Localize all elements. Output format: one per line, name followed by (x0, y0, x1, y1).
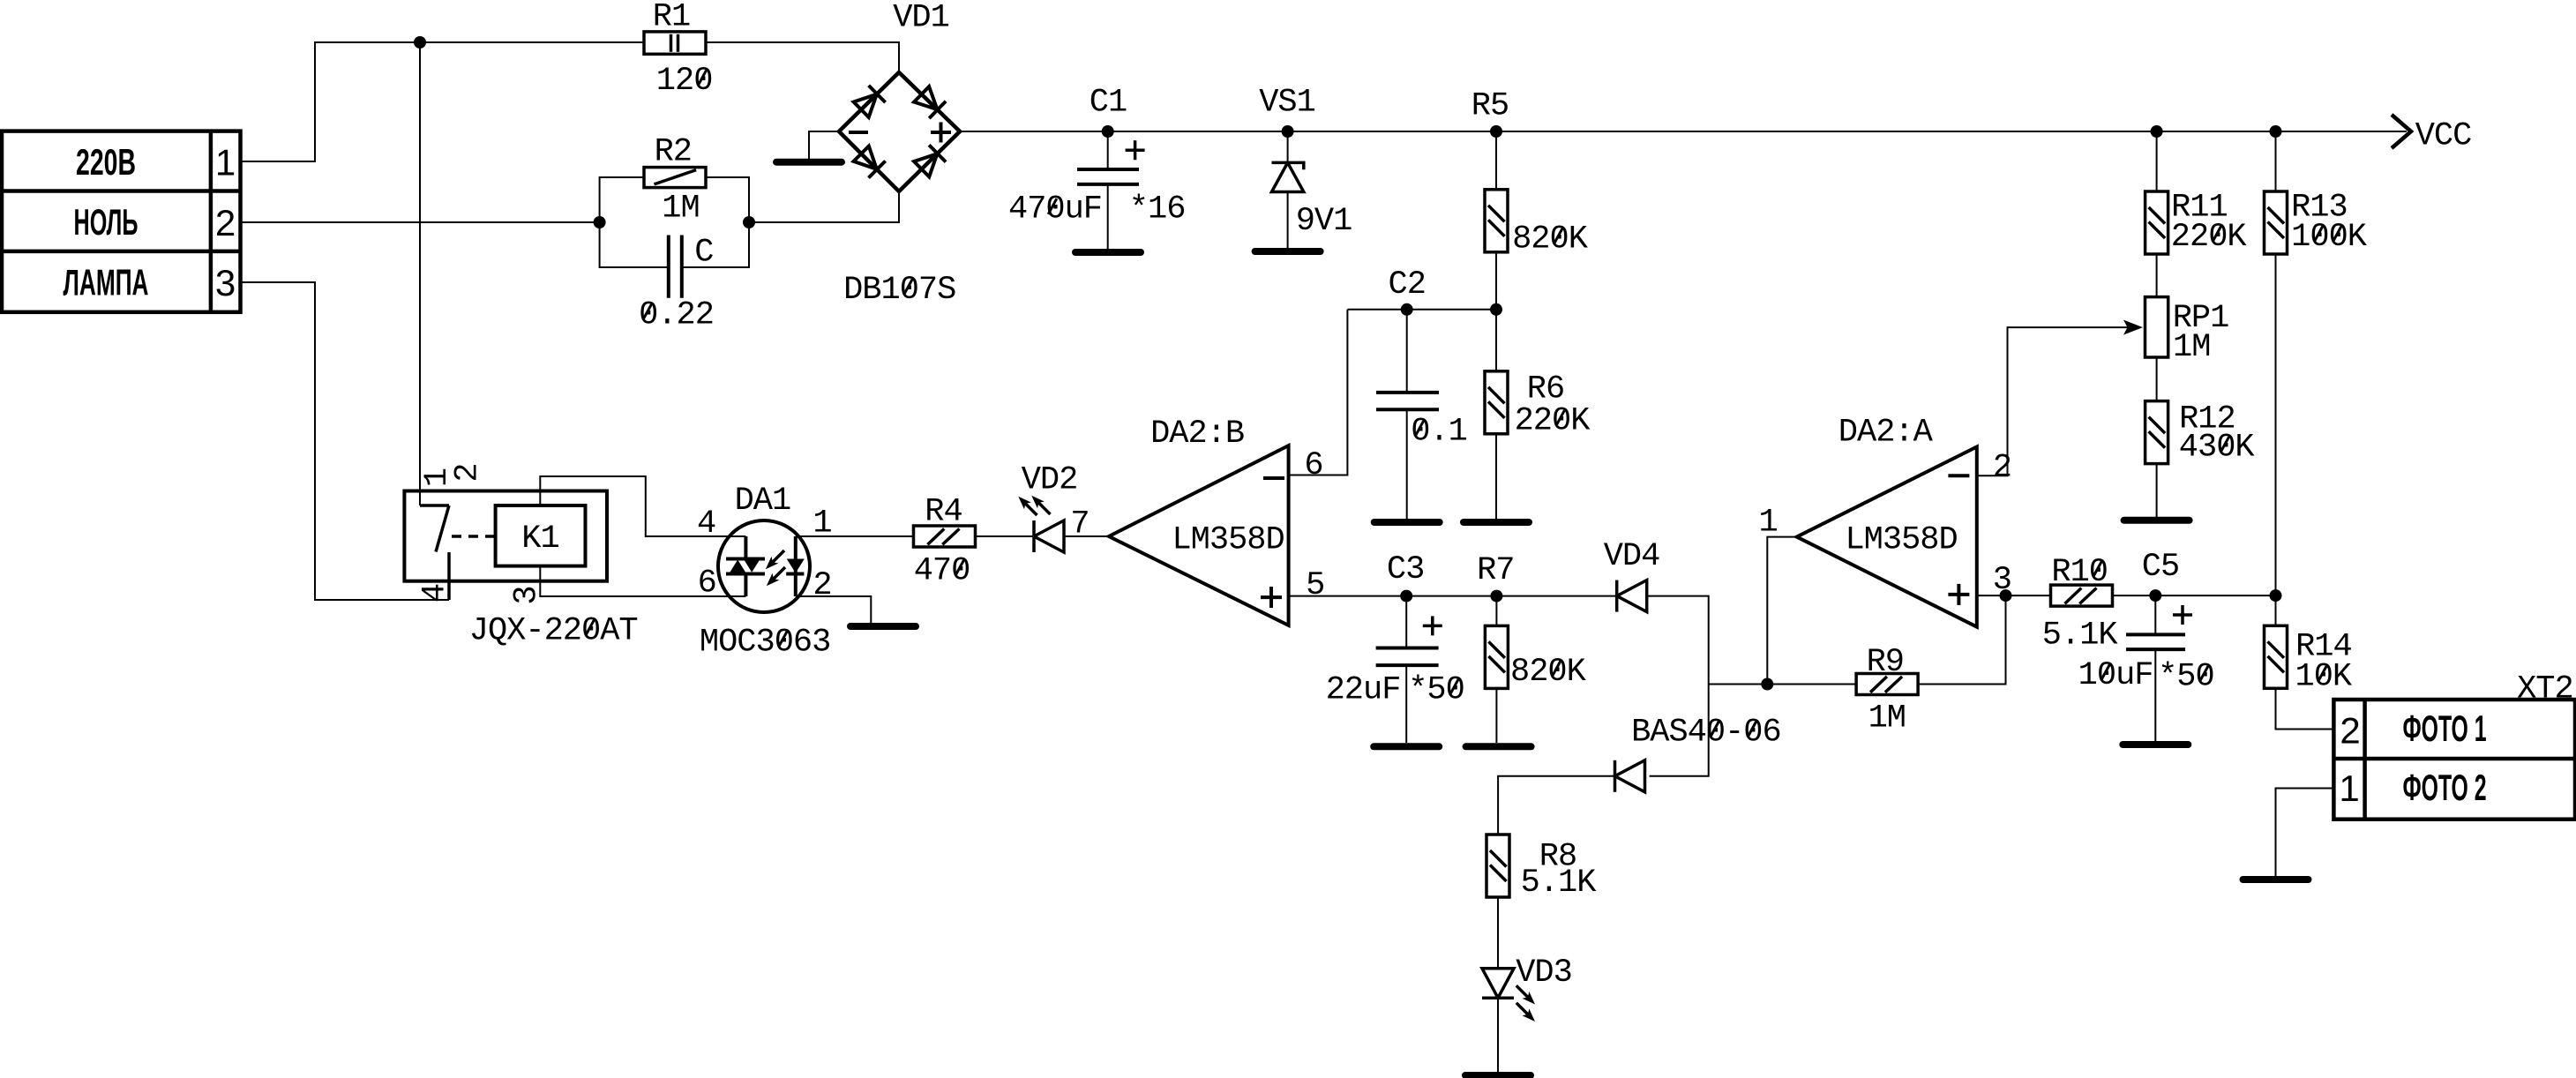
resistor R8 (1486, 835, 1509, 897)
wire R2C parallel loop (600, 177, 644, 222)
svg-text:*50: *50 (1408, 672, 1464, 709)
svg-text:2: 2 (1993, 450, 2011, 487)
ground opto (850, 623, 916, 630)
resistor R7 (1495, 596, 1497, 626)
wire opamp A output (1767, 537, 1796, 685)
svg-text:XT2: XT2 (2517, 670, 2573, 707)
ground VD3 (1465, 1072, 1531, 1078)
capacitor C (669, 236, 682, 298)
relay mech link dashed (452, 535, 496, 538)
wire RP1 to R12 (2156, 357, 2158, 401)
wire VCC rail (960, 131, 2407, 132)
resistor R12 (2145, 401, 2168, 464)
node A junction dot top rail (414, 36, 426, 49)
svg-text:C1: C1 (1090, 85, 1127, 122)
svg-text:10uF: 10uF (2078, 657, 2153, 694)
svg-text:1: 1 (2339, 767, 2359, 809)
svg-text:DB107S: DB107S (843, 272, 955, 309)
svg-text:R7: R7 (1477, 552, 1514, 589)
svg-text:C5: C5 (2142, 549, 2179, 586)
svg-text:VD1: VD1 (893, 0, 949, 37)
svg-text:LM358D: LM358D (1845, 521, 1957, 558)
ground R12 (2124, 517, 2190, 524)
ground C2 (1374, 519, 1440, 526)
wire opto pin2 to ground (796, 596, 872, 623)
diode VD4 (1617, 580, 1647, 612)
wire pin2 net to RP1 wiper (1977, 327, 2135, 475)
wire R9 to pin3 node (1918, 595, 2005, 684)
svg-text:0.1: 0.1 (1411, 414, 1467, 451)
plus sign bridge (931, 123, 951, 143)
svg-text:R9: R9 (1867, 644, 1904, 681)
resistor R1 (644, 32, 706, 54)
relay pin 4 label (416, 584, 453, 603)
svg-text:1M: 1M (1868, 700, 1906, 737)
svg-text:10K: 10K (2295, 659, 2352, 696)
capacitor C3 (1405, 596, 1407, 648)
wire VD2 to opamp B (1064, 535, 1109, 537)
svg-text:5.1K: 5.1K (2042, 617, 2119, 654)
wire R4 to VD2 (976, 535, 1035, 537)
resistor R11 (2156, 131, 2158, 191)
ground R7 (1466, 743, 1531, 750)
ground R6 (1464, 519, 1529, 526)
ground XT2 (2243, 876, 2309, 883)
resistor R2 (644, 168, 706, 188)
wire VD3 to ground (1497, 998, 1499, 1072)
svg-text:2: 2 (215, 202, 236, 243)
svg-text:220В: 220В (76, 141, 136, 183)
op-amp DA2:B (1109, 445, 1289, 625)
svg-text:7: 7 (1070, 506, 1089, 543)
led VD2 (1034, 520, 1064, 552)
svg-text:R1: R1 (653, 0, 690, 36)
diode bridge VD1 (839, 72, 960, 191)
svg-text:4: 4 (697, 505, 715, 543)
relay K1 box (404, 491, 607, 581)
diode BAS40 lower (1615, 760, 1645, 792)
svg-text:470: 470 (914, 553, 970, 590)
svg-text:BAS40-06: BAS40-06 (1631, 714, 1781, 751)
svg-text:6: 6 (1304, 447, 1322, 484)
slashed zeros overlay (586, 71, 2341, 737)
resistor R4 (914, 526, 976, 547)
node R2C left (594, 216, 606, 228)
svg-text:4: 4 (416, 584, 453, 603)
relay pin 3 label (509, 586, 546, 604)
wire lower diode to R8 (1498, 776, 1614, 835)
wire R10 to C5 node and R13 (2113, 595, 2276, 596)
wire node R5 bottom (1347, 309, 1496, 311)
svg-text:R4: R4 (925, 494, 962, 531)
svg-text:5: 5 (1306, 567, 1324, 604)
svg-text:R5: R5 (1471, 88, 1509, 125)
svg-text:VCC: VCC (2415, 118, 2472, 155)
svg-text:DA2:A: DA2:A (1838, 415, 1934, 452)
wire pin3 to relay contact (241, 282, 450, 600)
resistor R13 (2275, 131, 2277, 191)
svg-text:22uF: 22uF (1326, 672, 1401, 709)
wire pin5 net (1289, 595, 1617, 597)
svg-text:*16: *16 (1129, 191, 1186, 228)
svg-text:DA2:B: DA2:B (1150, 415, 1244, 453)
led VD3 (1482, 969, 1514, 999)
wire pin6 vertical (1289, 310, 1348, 475)
node R2C right (743, 216, 755, 228)
wire relay pin3 to opto pin6 (540, 566, 745, 596)
svg-text:9V1: 9V1 (1296, 203, 1352, 240)
ground C1 (1075, 249, 1141, 256)
capacitor C2 (1406, 310, 1408, 393)
minus sign bridge (849, 131, 868, 134)
wire output to R9 (1767, 684, 1856, 685)
svg-text:JQX-220AT: JQX-220AT (469, 612, 638, 649)
svg-text:НОЛЬ: НОЛЬ (74, 201, 139, 243)
wire relay feed vertical (419, 42, 421, 505)
ground C5 (2123, 741, 2188, 748)
relay contact arm (420, 505, 449, 600)
svg-text:MOC3063: MOC3063 (700, 624, 830, 661)
svg-text:DA1: DA1 (735, 483, 791, 520)
relay pin 1 label (419, 468, 456, 487)
op-amp DA2:A (1797, 447, 1977, 627)
svg-text:1M: 1M (662, 190, 699, 227)
svg-text:R10: R10 (2051, 554, 2108, 591)
wire bridge minus to ground (809, 131, 839, 159)
svg-text:1M: 1M (2173, 329, 2210, 366)
relay pin 2 label (450, 463, 487, 482)
svg-text:820K: 820K (1510, 654, 1587, 691)
svg-text:C: C (694, 234, 713, 271)
svg-text:VD3: VD3 (1516, 954, 1572, 992)
optocoupler DA1 (718, 520, 810, 612)
svg-text:ФОТО 1: ФОТО 1 (2403, 707, 2487, 749)
svg-text:C2: C2 (1388, 266, 1425, 303)
ground bridge (776, 159, 842, 166)
svg-text:430K: 430K (2179, 430, 2256, 467)
wire VD4 to node X (1647, 596, 1709, 776)
capacitor C1 (1107, 131, 1109, 169)
RP1 wiper arrow (2123, 320, 2143, 335)
resistor R14 (2275, 595, 2277, 625)
svg-text:6: 6 (698, 565, 716, 603)
connector XT2 box (2333, 700, 2575, 820)
zener VS1 (1287, 131, 1289, 162)
svg-text:820K: 820K (1512, 221, 1589, 258)
wire pin2 to R2C node (241, 221, 600, 223)
svg-text:2: 2 (2340, 709, 2360, 751)
wire XT2 pin1 to ground (2276, 789, 2334, 877)
capacitor C5 (2154, 595, 2156, 634)
svg-text:2: 2 (812, 567, 831, 604)
resistor R6 (1495, 310, 1497, 371)
VCC arrow (2392, 115, 2411, 148)
wire opto pin1 to R4 (796, 535, 914, 537)
svg-text:100K: 100K (2291, 219, 2368, 256)
svg-text:1: 1 (215, 141, 236, 183)
wire node X to output node (1709, 684, 1768, 685)
wire top rail R1 to bridge (706, 42, 899, 72)
svg-text:VS1: VS1 (1259, 85, 1315, 122)
svg-text:ЛАМПА: ЛАМПА (64, 262, 149, 303)
wire R2C to bridge bottom (749, 191, 899, 222)
svg-text:C3: C3 (1387, 551, 1424, 588)
svg-text:0.22: 0.22 (639, 296, 714, 333)
svg-text:K1: K1 (521, 520, 558, 558)
svg-text:220K: 220K (2171, 219, 2248, 256)
connector XT1 box (2, 131, 241, 312)
wire pin1 to top rail (241, 42, 645, 161)
svg-text:220K: 220K (1515, 403, 1591, 440)
svg-text:120: 120 (656, 63, 713, 100)
svg-text:3: 3 (215, 262, 236, 303)
svg-text:1: 1 (1758, 505, 1777, 542)
svg-text:VD2: VD2 (1022, 462, 1078, 499)
svg-text:ФОТО 2: ФОТО 2 (2403, 767, 2487, 808)
ground C3 (1374, 743, 1439, 750)
resistor R10 (2051, 585, 2113, 606)
svg-text:LM358D: LM358D (1172, 521, 1284, 558)
svg-text:VD4: VD4 (1604, 538, 1660, 575)
resistor R9 (1856, 674, 1918, 695)
svg-text:R2: R2 (655, 134, 692, 171)
wire pin3 net (1977, 595, 2051, 596)
svg-text:*50: *50 (2158, 659, 2214, 696)
wire relay pin2 to opto pin4 (540, 476, 745, 536)
ground VS1 (1255, 248, 1321, 255)
svg-text:470uF: 470uF (1008, 191, 1102, 228)
resistor R5 (1495, 131, 1497, 190)
svg-text:5.1K: 5.1K (1521, 865, 1598, 902)
wire R14 to XT2 pin2 (2276, 688, 2334, 729)
svg-text:2: 2 (450, 463, 487, 482)
potentiometer RP1 (2145, 297, 2168, 357)
